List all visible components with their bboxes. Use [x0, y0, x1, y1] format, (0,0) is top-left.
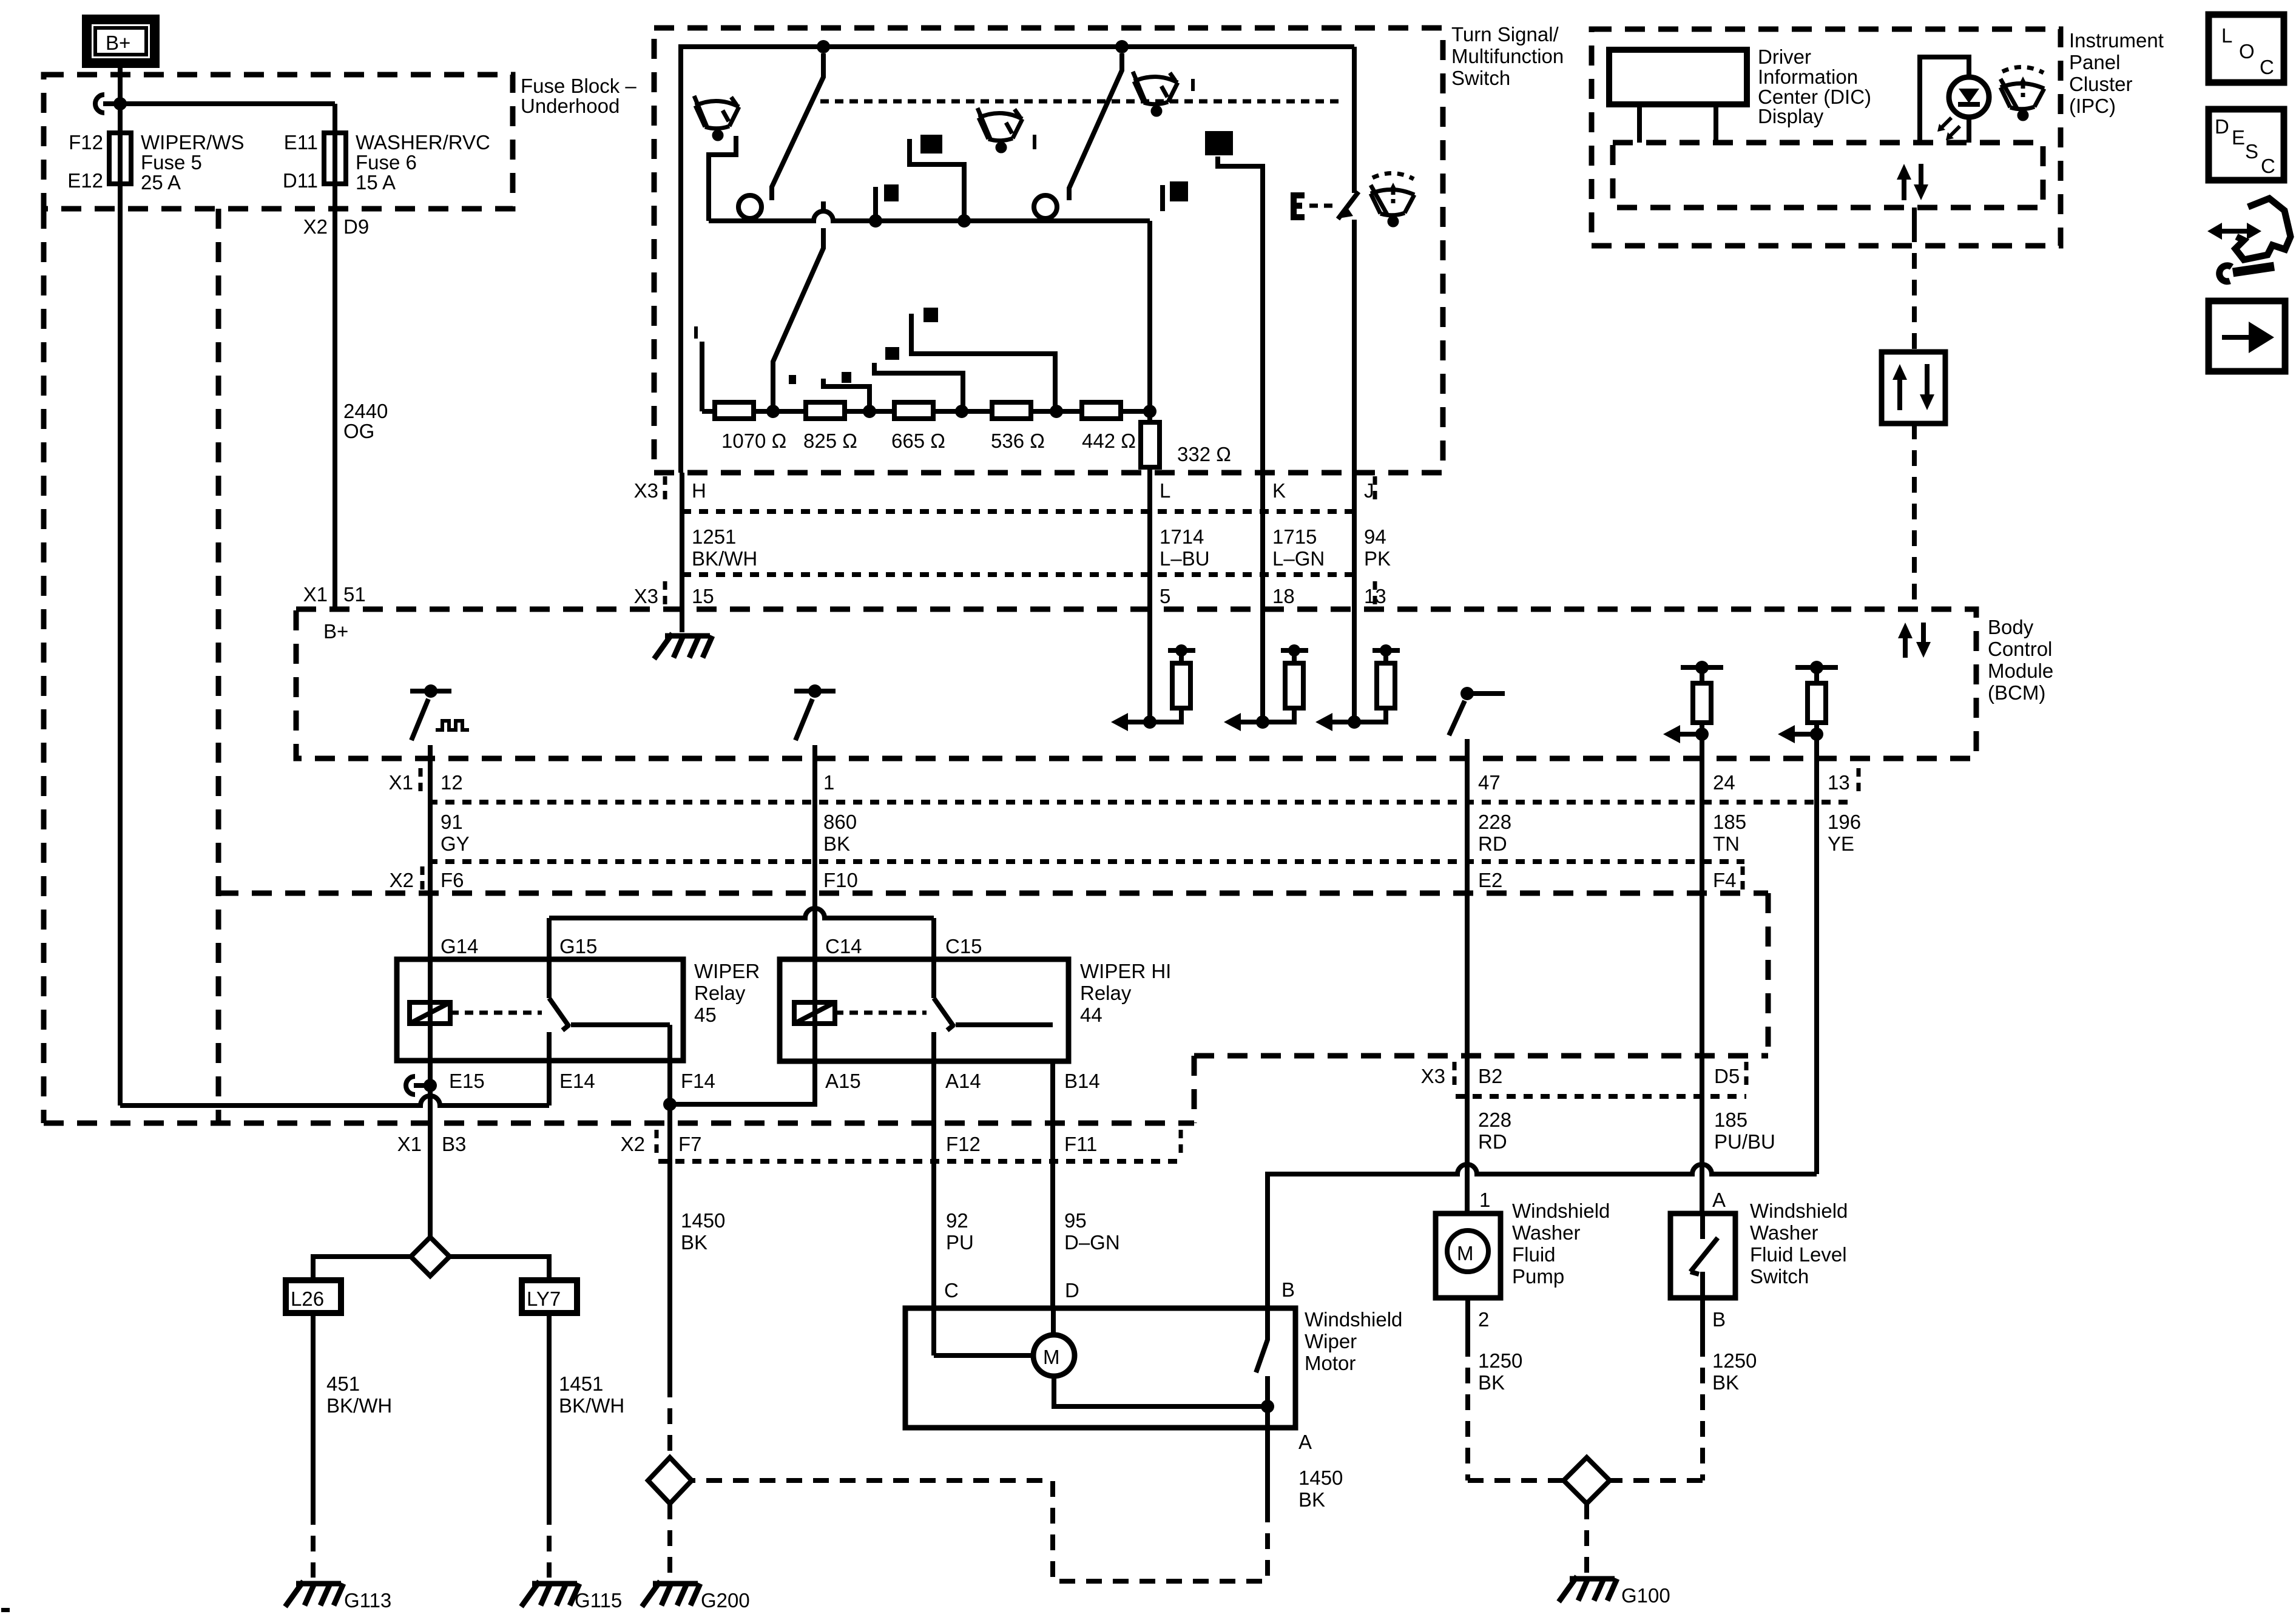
wire 196 YE from BCM pin 13 down to wiper motor B: [1814, 758, 1819, 1174]
svg-text:B14: B14: [1064, 1070, 1100, 1092]
svg-text:Pump: Pump: [1512, 1265, 1564, 1288]
wiper indicator LED wiring: [1920, 57, 1969, 143]
dashed rail inner left edge to X2 connector: [216, 209, 221, 1123]
svg-text:2440: 2440: [343, 400, 388, 422]
selector mid line with hop over blade: [709, 211, 1150, 221]
svg-text:E11: E11: [284, 131, 318, 154]
node F14 junction dot: [663, 1098, 677, 1111]
svg-text:451: 451: [326, 1372, 360, 1395]
BCM switch output pin 1: [808, 684, 822, 698]
svg-text:1250: 1250: [1478, 1349, 1522, 1372]
mist wiper icon dashed: [1371, 173, 1414, 225]
LED emission arrows: [1940, 118, 1960, 137]
switch 2 contact circle: [1034, 195, 1057, 218]
svg-text:(BCM): (BCM): [1988, 681, 2045, 704]
relay 45 coil: [410, 1002, 450, 1024]
svg-text:Fluid: Fluid: [1512, 1243, 1556, 1266]
motor park switch contact stub: [1265, 1376, 1270, 1406]
ground G115: [521, 1581, 579, 1607]
serial data arrows inside BCM: [1903, 636, 1908, 658]
svg-text:WIPER: WIPER: [694, 960, 760, 982]
bridge wire G15 to C15 with hop over C14: [549, 908, 934, 918]
stub wire mid square: [873, 187, 878, 221]
wire K down from switch to BCM: [1260, 473, 1265, 722]
svg-text:1450: 1450: [1298, 1467, 1343, 1489]
svg-text:A14: A14: [945, 1070, 981, 1092]
rotary delay blade through hop: [773, 201, 823, 411]
svg-text:B: B: [1712, 1308, 1726, 1331]
node motor park dot: [1261, 1400, 1274, 1413]
icon box arrow: [2209, 301, 2285, 371]
LED indicator: [1949, 77, 1989, 117]
svg-text:M: M: [1043, 1346, 1060, 1368]
dashed rail left edge of underhood electrical center: [41, 209, 47, 1123]
svg-text:1250: 1250: [1712, 1349, 1757, 1372]
svg-text:Fuse Block –: Fuse Block –: [521, 75, 636, 97]
splice diamond G100: [1564, 1457, 1610, 1504]
svg-text:Relay: Relay: [694, 982, 746, 1004]
svg-text:91: 91: [441, 811, 463, 833]
switch 1 contact circle: [738, 195, 761, 218]
connector L26 box: [286, 1280, 341, 1313]
wire K branch down to connector: [1218, 157, 1263, 473]
svg-text:D9: D9: [343, 215, 369, 238]
svg-text:G115: G115: [575, 1589, 622, 1612]
svg-text:Control: Control: [1988, 638, 2052, 660]
switch inner frame left edge / H wire top: [681, 47, 1354, 473]
wrench icon: [2233, 266, 2274, 272]
svg-text:WIPER/WS: WIPER/WS: [141, 131, 245, 154]
ladder left arm: [700, 342, 704, 411]
contact square near switch 2: [1170, 181, 1188, 201]
svg-text:G200: G200: [701, 1589, 750, 1612]
connector LY7 box: [522, 1280, 577, 1313]
svg-text:Multifunction: Multifunction: [1451, 45, 1564, 67]
svg-text:A: A: [1712, 1189, 1726, 1211]
DIC display rectangle: [1609, 50, 1747, 104]
windshield wiper motor box: [905, 1308, 1295, 1428]
svg-text:BK: BK: [1478, 1371, 1505, 1394]
wire pump to splice: [1465, 1298, 1470, 1341]
svg-text:Body: Body: [1988, 616, 2034, 638]
svg-text:Windshield: Windshield: [1305, 1308, 1402, 1331]
svg-text:228: 228: [1478, 1109, 1511, 1131]
svg-text:F14: F14: [681, 1070, 715, 1092]
svg-text:L26: L26: [291, 1288, 324, 1310]
svg-text:15 A: 15 A: [356, 171, 396, 194]
svg-text:Relay: Relay: [1080, 982, 1132, 1004]
dashed wire diamond to G100: [1584, 1504, 1589, 1573]
motor park switch blade: [1256, 1308, 1268, 1372]
svg-text:X1: X1: [303, 583, 328, 606]
svg-text:13: 13: [1828, 771, 1850, 794]
svg-text:X3: X3: [634, 585, 658, 607]
svg-text:F7: F7: [678, 1133, 702, 1155]
svg-text:B3: B3: [442, 1133, 466, 1155]
ground G100: [1559, 1576, 1617, 1602]
switch 1 blade (wiper on/off): [772, 53, 823, 200]
dashed serial data wire IPC to BCM: [1912, 208, 1917, 226]
svg-text:E15: E15: [449, 1070, 485, 1092]
svg-text:B: B: [1281, 1278, 1295, 1301]
wire H to ground inside BCM: [680, 473, 684, 632]
splice diamond on wire 451/1451: [411, 1237, 450, 1276]
resistor 825 ohm: [806, 402, 845, 419]
wire from square to selector line: [910, 139, 964, 221]
relay 45 NC contact stub E14: [547, 1032, 552, 1061]
node feed dot switch 1: [817, 40, 830, 53]
svg-text:C: C: [2260, 56, 2274, 78]
svg-text:F10: F10: [823, 869, 858, 891]
svg-text:1: 1: [1479, 1189, 1490, 1211]
square wave icon pin 12: [436, 721, 469, 730]
svg-text:LY7: LY7: [527, 1288, 561, 1310]
svg-text:X2: X2: [390, 869, 414, 891]
contact square delay B: [885, 347, 899, 360]
splice clip at E15: [406, 1076, 425, 1095]
svg-text:PK: PK: [1364, 547, 1391, 570]
svg-text:B2: B2: [1478, 1065, 1502, 1087]
svg-text:GY: GY: [441, 832, 470, 855]
svg-text:228: 228: [1478, 811, 1511, 833]
resistor 665 ohm: [894, 402, 933, 419]
BCM pull-up input K pin 18: [1256, 715, 1269, 729]
mist switch blade: [1338, 192, 1359, 219]
BCM output driver pin 13 with resistor: [1795, 665, 1838, 670]
wiper relay 44 box: [780, 959, 1069, 1061]
svg-text:D–GN: D–GN: [1064, 1231, 1120, 1254]
icon box LOC: [2209, 15, 2284, 83]
node feed dot switch 2: [1115, 40, 1129, 53]
svg-text:24: 24: [1713, 771, 1735, 794]
svg-text:X3: X3: [1421, 1065, 1445, 1087]
svg-text:M: M: [1457, 1242, 1474, 1264]
svg-text:E2: E2: [1478, 869, 1502, 891]
relay 44 actuator dashed: [835, 1011, 927, 1015]
wire E15 down from relay 45 through splice to junction: [428, 1061, 433, 1106]
wire delay B to ladder tap 3: [874, 363, 963, 408]
svg-text:45: 45: [694, 1004, 717, 1026]
relay 44 coil: [794, 1002, 835, 1024]
Instrument Panel Cluster dashed box: [1592, 29, 2061, 246]
svg-text:332 Ω: 332 Ω: [1177, 443, 1231, 465]
svg-text:A15: A15: [825, 1070, 861, 1092]
svg-text:Washer: Washer: [1750, 1221, 1818, 1244]
svg-text:Display: Display: [1758, 105, 1824, 127]
wire 228 RD from BCM pin 47 down to washer pump: [1465, 739, 1470, 1214]
Body Control Module dashed box: [296, 609, 1976, 758]
svg-text:Switch: Switch: [1451, 67, 1510, 89]
connector X3 washer row dashed: [1194, 893, 1768, 1123]
wire B+ feed down from B+ box through fuse 5 to relay feed: [118, 63, 123, 1106]
resistor 332 ohm: [1141, 422, 1160, 467]
fuse WIPER/WS Fuse 5 25A: [109, 133, 131, 184]
resistor 442 ohm: [1082, 402, 1121, 419]
svg-text:5: 5: [1160, 585, 1170, 607]
svg-text:PU: PU: [946, 1231, 974, 1254]
relay 44 blade: [934, 998, 954, 1030]
svg-text:Switch: Switch: [1750, 1265, 1809, 1288]
svg-text:F4: F4: [1713, 869, 1737, 891]
svg-text:L–GN: L–GN: [1272, 547, 1325, 570]
svg-text:L: L: [2221, 24, 2232, 47]
svg-text:Motor: Motor: [1305, 1352, 1356, 1374]
svg-text:C14: C14: [825, 935, 862, 957]
windshield washer fluid level switch box: [1670, 1214, 1735, 1298]
contact square delay C: [842, 372, 851, 383]
dotted line X1 row lower: [428, 859, 1744, 864]
relay 44 NC contact stub A14: [931, 1032, 936, 1061]
BCM pull-up input L pin 5: [1143, 715, 1156, 729]
svg-text:D5: D5: [1714, 1065, 1740, 1087]
node ladder dot 2: [863, 405, 876, 418]
Turn Signal / Multifunction Switch dashed box: [654, 28, 1443, 473]
svg-text:825 Ω: 825 Ω: [803, 430, 857, 452]
wire from low-speed icon to selector line: [709, 136, 736, 221]
svg-text:185: 185: [1714, 1109, 1747, 1131]
svg-text:Underhood: Underhood: [521, 95, 620, 117]
wire level switch to splice: [1700, 1298, 1705, 1341]
svg-text:1450: 1450: [681, 1209, 725, 1232]
node ladder dot 1: [766, 405, 780, 418]
scan tool icon: [2235, 198, 2291, 260]
level switch symbol: [1690, 1214, 1718, 1298]
resistor 536 ohm: [992, 402, 1031, 419]
wire A15 coil return down and left to F14 node: [670, 1024, 815, 1104]
page mark: [1, 1608, 10, 1612]
svg-text:BK: BK: [823, 832, 850, 855]
wire delay C to ladder tap 2: [823, 379, 869, 408]
svg-text:C15: C15: [945, 935, 982, 957]
svg-text:BK: BK: [1712, 1371, 1739, 1394]
svg-text:47: 47: [1478, 771, 1501, 794]
svg-text:B+: B+: [106, 32, 130, 54]
svg-text:94: 94: [1364, 525, 1386, 548]
svg-text:E: E: [2232, 126, 2245, 149]
svg-text:Washer: Washer: [1512, 1221, 1580, 1244]
svg-text:G100: G100: [1621, 1584, 1670, 1607]
dotted line X3 washer row: [1456, 1094, 1746, 1099]
svg-text:PU/BU: PU/BU: [1714, 1130, 1775, 1153]
wire 451 BK/WH to G113: [311, 1313, 316, 1509]
wire delay A to ladder tap 4: [911, 314, 1055, 408]
connector X2 row dashed line: [218, 891, 1768, 896]
svg-text:TN: TN: [1713, 832, 1740, 855]
wire selector line corner down to ladder and L output: [1147, 221, 1152, 722]
relay 45 common contact to F14: [571, 1022, 670, 1027]
svg-text:G113: G113: [344, 1589, 391, 1612]
svg-text:C: C: [944, 1279, 959, 1301]
svg-text:Module: Module: [1988, 660, 2053, 682]
svg-text:F12: F12: [69, 131, 103, 154]
contact square off position: [789, 375, 796, 384]
BCM switch output pin 12: [424, 684, 437, 698]
ground G200: [642, 1581, 700, 1607]
ground G113: [285, 1581, 343, 1607]
DIC legs: [1639, 104, 1716, 143]
svg-text:Cluster: Cluster: [2069, 73, 2133, 95]
dashed wire F7 to splice diamond: [667, 1382, 672, 1457]
stub wire near switch 2: [1160, 185, 1165, 211]
svg-text:F11: F11: [1064, 1133, 1097, 1155]
svg-text:Windshield: Windshield: [1512, 1200, 1610, 1222]
svg-text:WIPER HI: WIPER HI: [1080, 960, 1171, 982]
svg-text:K: K: [1272, 479, 1286, 502]
switch 2 blade (high speed): [1069, 53, 1122, 200]
connector X1 row dashed line (fuse block bottom): [44, 1121, 1194, 1126]
svg-text:1715: 1715: [1272, 525, 1317, 548]
mist switch dashed actuator: [1309, 204, 1335, 208]
svg-text:12: 12: [441, 771, 463, 794]
svg-text:Wiper: Wiper: [1305, 1330, 1357, 1352]
svg-text:Fuse 5: Fuse 5: [141, 151, 202, 174]
svg-text:RD: RD: [1478, 1130, 1507, 1153]
BCM switch output pin 47: [1460, 687, 1474, 700]
svg-text:E12: E12: [67, 169, 103, 192]
svg-text:BK: BK: [1298, 1488, 1325, 1511]
svg-text:1251: 1251: [692, 525, 736, 548]
svg-text:E14: E14: [559, 1070, 595, 1092]
svg-text:1070 Ω: 1070 Ω: [721, 430, 786, 452]
svg-text:442 Ω: 442 Ω: [1082, 430, 1136, 452]
svg-text:92: 92: [946, 1209, 968, 1232]
wiper icon middle: [977, 108, 1022, 151]
svg-text:1: 1: [823, 771, 834, 794]
svg-text:B+: B+: [323, 620, 348, 643]
svg-text:YE: YE: [1828, 832, 1854, 855]
wire C into motor: [934, 1353, 1033, 1358]
svg-text:F6: F6: [441, 869, 464, 891]
svg-text:Driver: Driver: [1758, 46, 1811, 68]
wire fuse 6 feed down to BCM X1-51: [333, 104, 337, 609]
wire 91 GY from BCM pin 12 down through relay coil to splice: [428, 745, 433, 1237]
dashed interlock link line: [820, 100, 1344, 104]
svg-text:2: 2: [1478, 1308, 1489, 1331]
icon box DESC: [2209, 109, 2284, 180]
svg-text:BK: BK: [681, 1231, 707, 1254]
svg-text:1451: 1451: [559, 1372, 603, 1395]
relay 45 actuator dashed: [450, 1011, 542, 1015]
svg-text:RD: RD: [1478, 832, 1507, 855]
contact square K branch: [1205, 131, 1233, 155]
tick ladder arm: [694, 326, 698, 339]
motor M circle: [1033, 1335, 1075, 1376]
svg-text:196: 196: [1828, 811, 1861, 833]
tick near middle icon: [1033, 135, 1036, 149]
contact square delay A: [923, 308, 938, 322]
wire B+ horizontal to fuse 6: [120, 101, 335, 106]
node B+ junction dot: [113, 97, 127, 110]
BCM output driver pin 24 with resistor: [1681, 665, 1723, 670]
svg-text:C: C: [2261, 155, 2275, 177]
svg-text:X1: X1: [397, 1133, 422, 1155]
wire 185 TN/PU-BU from BCM pin 24 down to fluid level switch: [1700, 758, 1704, 1214]
svg-text:O: O: [2239, 40, 2255, 62]
svg-text:860: 860: [823, 811, 857, 833]
svg-text:15: 15: [692, 585, 714, 607]
svg-text:D: D: [1065, 1279, 1079, 1301]
svg-text:Instrument: Instrument: [2069, 29, 2164, 52]
svg-text:95: 95: [1064, 1209, 1087, 1232]
IPC inner module dashed box: [1613, 143, 2043, 208]
svg-text:S: S: [2245, 140, 2258, 163]
wire A motor ground out: [1265, 1406, 1270, 1507]
svg-text:D: D: [2215, 115, 2229, 138]
svg-text:(IPC): (IPC): [2069, 95, 2116, 117]
svg-text:A: A: [1298, 1431, 1312, 1453]
BCM pull-up input J pin 13: [1348, 715, 1361, 729]
windshield washer fluid pump box: [1436, 1214, 1501, 1298]
contact square high-speed top: [920, 135, 942, 154]
svg-text:185: 185: [1713, 811, 1746, 833]
svg-text:Panel: Panel: [2069, 51, 2120, 73]
wire F14 down to G200: [667, 1025, 672, 1382]
wire motor return to switch node: [1054, 1376, 1268, 1406]
wire J from top line down through mist switch to connector: [1352, 47, 1357, 722]
node ladder dot 3: [955, 405, 968, 418]
battery feed B+ box: [87, 19, 155, 63]
svg-text:X3: X3: [634, 479, 658, 502]
svg-text:BK/WH: BK/WH: [559, 1394, 624, 1417]
svg-text:X2: X2: [303, 215, 328, 238]
node dot selector-resistor tap 3: [957, 214, 971, 228]
wiper icon low speed: [694, 96, 739, 139]
svg-text:D11: D11: [283, 169, 318, 192]
svg-text:WASHER/RVC: WASHER/RVC: [356, 131, 490, 154]
relay 45 blade: [549, 998, 569, 1030]
resistor 1070 ohm: [715, 402, 754, 419]
svg-text:BK/WH: BK/WH: [326, 1394, 392, 1417]
node dot selector-resistor tap 2: [869, 214, 882, 228]
svg-text:H: H: [692, 479, 706, 502]
contact square mid: [884, 184, 899, 201]
wire splice to LY7: [450, 1257, 549, 1280]
serial data box: [1882, 352, 1945, 424]
wire B14 down to motor D: [1053, 1061, 1053, 1335]
serial data arrows in IPC: [1902, 177, 1906, 200]
svg-text:665 Ω: 665 Ω: [891, 430, 945, 452]
svg-text:1714: 1714: [1160, 525, 1204, 548]
svg-text:L: L: [1160, 479, 1170, 502]
wire G15 down into relay 45: [547, 918, 552, 998]
svg-text:G14: G14: [441, 935, 478, 957]
resistor ladder wire: [702, 409, 1150, 414]
svg-text:G15: G15: [559, 935, 597, 957]
svg-text:L–BU: L–BU: [1160, 547, 1210, 570]
svg-text:18: 18: [1272, 585, 1295, 607]
svg-text:25 A: 25 A: [141, 171, 181, 194]
svg-text:Fluid Level: Fluid Level: [1750, 1243, 1847, 1266]
svg-text:51: 51: [343, 583, 366, 606]
svg-text:44: 44: [1080, 1004, 1102, 1026]
svg-text:Turn Signal/: Turn Signal/: [1451, 23, 1559, 46]
svg-text:F12: F12: [946, 1133, 981, 1155]
mist switch spring bracket: [1294, 195, 1305, 217]
dotted line X1 row upper: [428, 800, 1852, 805]
dotted line X3 row upper: [682, 509, 1354, 514]
svg-text:J: J: [1364, 479, 1374, 502]
wire 196 YE horizontal link to motor B with hops: [1268, 1164, 1817, 1308]
dotted line X2 row lower: [658, 1159, 1181, 1164]
wire A14 down to motor C: [931, 1061, 936, 1355]
svg-text:536 Ω: 536 Ω: [991, 430, 1045, 452]
dotted line X3 row lower: [682, 572, 1354, 577]
svg-text:Information: Information: [1758, 66, 1858, 88]
splice diamond G200: [648, 1457, 692, 1504]
wire 1451 BK/WH to G115: [547, 1313, 552, 1509]
svg-text:BK/WH: BK/WH: [692, 547, 757, 570]
svg-text:Windshield: Windshield: [1750, 1200, 1848, 1222]
